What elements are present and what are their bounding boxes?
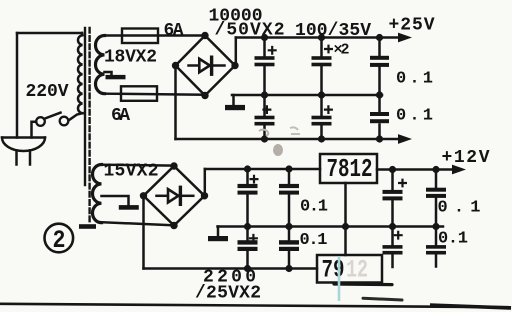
regulator U1 7812 box bbox=[320, 154, 377, 183]
transformer T1 primary winding bbox=[78, 33, 82, 113]
svg-text:79: 79 bbox=[322, 255, 345, 284]
node dots mid rail lower section bbox=[244, 223, 440, 230]
node dots on mid ground rail bbox=[261, 91, 383, 98]
svg-text:12: 12 bbox=[346, 255, 368, 284]
arrow: +25V output bbox=[398, 33, 412, 43]
svg-text:15VX2: 15VX2 bbox=[104, 162, 159, 182]
scan artifact: faint speck top left bbox=[0, 311, 1, 312]
svg-text:18VX2: 18VX2 bbox=[104, 48, 157, 68]
fuse F1 body bbox=[122, 29, 158, 44]
capacitor C1 10000/50V upper (stems) bbox=[263, 38, 266, 96]
scan artifact: smudge line below 7912 bbox=[363, 298, 402, 300]
wire: switch to plug bbox=[32, 122, 37, 138]
node: D1 bottom vertex bbox=[201, 92, 208, 99]
polarity plus C7 bbox=[251, 176, 258, 183]
capacitor C3 plates bbox=[312, 56, 332, 66]
scan artifact: faint streak top left bbox=[0, 311, 1, 312]
ground: lower section bar bbox=[208, 236, 228, 241]
capacitor C3 100/35V upper (stems) bbox=[320, 38, 323, 96]
node dots rail2 left bbox=[244, 165, 293, 172]
node dots on +12V output rail bbox=[389, 166, 440, 173]
node: D1 right vertex bbox=[231, 62, 238, 69]
transformer T1 secondary winding 18VX2 bbox=[96, 36, 105, 94]
svg-text:0.1: 0.1 bbox=[396, 70, 433, 89]
polarity plus C13 bbox=[395, 232, 402, 239]
ground: upper section bar bbox=[225, 105, 245, 110]
node dots on +25V rail bbox=[261, 34, 383, 41]
switch S1 contact left bbox=[36, 117, 45, 126]
node: D2 top vertex bbox=[170, 162, 177, 169]
transformer core line dashed bbox=[88, 28, 90, 222]
svg-text:0.1: 0.1 bbox=[438, 230, 468, 249]
scan artifact: gray blob bbox=[273, 144, 283, 156]
svg-text:6A: 6A bbox=[111, 106, 130, 126]
page number circle 2 bbox=[45, 224, 74, 255]
bottom page rule bbox=[0, 304, 511, 307]
labels lower section bbox=[104, 148, 490, 303]
capacitor C14 0.1 lower (stems) bbox=[435, 227, 438, 267]
capacitor C13 plates bbox=[383, 245, 403, 254]
polarity plus C11 bbox=[399, 180, 406, 187]
svg-text:/25VX2: /25VX2 bbox=[195, 283, 261, 303]
wire: +12V unregulated rail to 7812 input bbox=[205, 168, 320, 171]
capacitor C13 elec -12V lower (stems) bbox=[391, 227, 394, 268]
wire: primary bottom to switch bbox=[69, 113, 83, 120]
svg-text:+12V: +12V bbox=[442, 148, 490, 168]
bottom page rule right thick segment bbox=[430, 305, 511, 308]
wire: mid ground rail upper section bbox=[232, 94, 382, 97]
AC plug P1 body bbox=[2, 138, 45, 152]
wire: D2 minus output down bbox=[142, 196, 145, 269]
transformer core line solid bbox=[84, 28, 86, 185]
svg-text:0.1: 0.1 bbox=[300, 231, 328, 250]
wire: D1 minus output down bbox=[174, 66, 177, 140]
transformer T1 secondary winding 15VX2 bbox=[93, 165, 102, 223]
capacitor C11 elec +12V out upper (stems) bbox=[391, 170, 394, 227]
AC plug P1 top line bbox=[2, 136, 45, 139]
wire: 15VX2 top to bridge D2 bbox=[102, 163, 175, 166]
capacitor C8 0.1 upper (stems) bbox=[288, 169, 291, 227]
node dots negative rail lower bbox=[244, 265, 293, 272]
polarity plus C9 bbox=[250, 235, 257, 242]
fuse F2 body bbox=[121, 86, 157, 101]
node dots on -25V rail bbox=[261, 135, 383, 142]
node: D2 left vertex bbox=[140, 192, 147, 199]
capacitor C12 0.1 out upper (stems) bbox=[435, 170, 438, 227]
smudge: 7912 box bottom thick edge bbox=[334, 282, 392, 286]
AC plug P1 prong right bbox=[29, 150, 32, 164]
svg-text:220V: 220V bbox=[26, 82, 69, 102]
ground: lower section stem bbox=[217, 227, 220, 237]
scan artifact: faint speck right bbox=[0, 311, 1, 312]
wire: 220V primary loop top bbox=[17, 32, 82, 35]
capacitor C8 plates bbox=[279, 184, 299, 195]
capacitor C14 plates bbox=[426, 245, 446, 254]
capacitor C1 plates bbox=[255, 56, 275, 66]
capacitor C9 plates bbox=[238, 240, 258, 251]
arrow: +12V output bbox=[452, 165, 466, 175]
regulator U2 7912 box bbox=[317, 255, 382, 283]
bridge rectifier D2 diamond bbox=[144, 166, 205, 226]
svg-text:6A: 6A bbox=[164, 21, 184, 41]
capacitor C7 plates bbox=[238, 184, 258, 195]
polarity plus C1 bbox=[269, 47, 276, 54]
labels upper-left bbox=[26, 6, 435, 126]
AC plug P1 prong left bbox=[15, 150, 18, 164]
polarity plus C3 bbox=[325, 46, 332, 53]
wire: 15VX2 center tap bbox=[102, 196, 129, 205]
svg-text:2: 2 bbox=[53, 226, 66, 255]
scan artifact: faint speck mid bbox=[0, 311, 1, 312]
capacitor C2 10000/50V lower (stems) bbox=[263, 95, 266, 139]
svg-text:0.1: 0.1 bbox=[300, 198, 328, 217]
node: D1 left vertex bbox=[172, 62, 179, 69]
svg-text:100/35V: 100/35V bbox=[295, 21, 371, 41]
wire: 7912 ground pin bbox=[344, 227, 347, 256]
svg-text:0.1: 0.1 bbox=[396, 107, 433, 126]
wire: 18VX2 center tap bbox=[105, 72, 112, 75]
capacitor C6 0.1 lower (stems) bbox=[378, 95, 381, 139]
node: D1 top vertex bbox=[201, 32, 208, 39]
transformer core terminator bar bbox=[79, 224, 96, 229]
wire: negative rail to 7912 input bbox=[144, 267, 318, 270]
ground: 18VX2 center tap bar bbox=[106, 75, 126, 79]
scan artifact: faint speck top mid bbox=[0, 311, 1, 312]
wire: 220V primary loop left vertical bbox=[16, 33, 19, 138]
capacitor C7 2200/25V upper (stems) bbox=[246, 169, 249, 227]
svg-text:7812: 7812 bbox=[327, 154, 373, 184]
ground: 15VX2 center tap bar bbox=[119, 205, 139, 210]
node: D2 right vertex bbox=[201, 192, 208, 199]
polarity plus C4 bbox=[325, 106, 332, 113]
diode symbol inside D2 bbox=[157, 187, 194, 204]
diode symbol inside D1 bbox=[189, 57, 225, 74]
node: D2 bottom vertex bbox=[170, 222, 177, 229]
svg-text:0.1: 0.1 bbox=[438, 199, 481, 218]
wire: secondary top to fuse F1 bbox=[105, 34, 204, 37]
capacitor C12 plates bbox=[426, 188, 446, 198]
switch S1 lever bbox=[44, 113, 60, 119]
capacitor C4 100/35V lower (stems) bbox=[320, 95, 323, 139]
svg-text:×2: ×2 bbox=[334, 42, 350, 59]
capacitor C10 0.1 lower (stems) bbox=[288, 227, 291, 269]
svg-text:/50VX2: /50VX2 bbox=[215, 21, 285, 41]
wire: secondary bottom to fuse F2 and bridge bbox=[105, 94, 205, 95]
capacitor C5 0.1 upper (stems) bbox=[378, 38, 381, 96]
svg-text:+25V: +25V bbox=[389, 16, 435, 36]
wire: -25V bottom rail bbox=[176, 138, 400, 141]
wire: +25V rail bbox=[236, 36, 399, 39]
wire: 15VX2 bottom to bridge D2 (crosses negative wire) bbox=[102, 222, 175, 225]
wire: D2 plus output up to +12V unregulated rail bbox=[204, 169, 207, 196]
scan artifact: faint marks on -25V rail bbox=[259, 130, 268, 137]
capacitor C11 plates bbox=[383, 190, 403, 201]
switch S1 contact right bbox=[60, 117, 69, 126]
wire: 7812 ground pin bbox=[344, 183, 347, 227]
polarity plus C2 bbox=[264, 106, 271, 113]
capacitor C2 plates bbox=[255, 116, 275, 126]
wire: 7812 output to +12V arrow bbox=[377, 168, 453, 171]
capacitor C6 plates bbox=[370, 112, 389, 123]
wire: mid ground rail lower section bbox=[218, 225, 444, 228]
capacitor C9 2200/25V lower (stems) bbox=[246, 227, 249, 269]
capacitor C4 plates bbox=[312, 116, 332, 126]
ground: upper section stem bbox=[232, 95, 235, 105]
scan artifact: cyan streak bbox=[338, 256, 341, 301]
wire: D1 plus output up to +25V rail bbox=[235, 38, 238, 66]
capacitor C10 plates bbox=[279, 240, 299, 251]
arrow: -25V output bbox=[398, 134, 412, 144]
capacitor C5 plates bbox=[370, 56, 389, 67]
bridge rectifier D1 diamond bbox=[176, 36, 236, 96]
